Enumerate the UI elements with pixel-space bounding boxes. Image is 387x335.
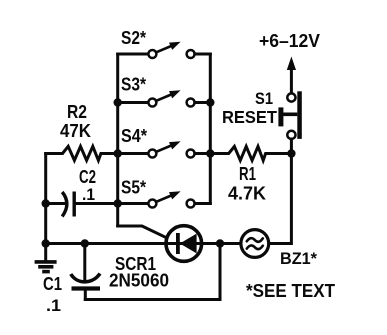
switch S3 [118,90,211,106]
switch S1 (reset pushbutton) [278,91,301,153]
svg-text:+6–12V: +6–12V [259,31,320,51]
SCR1 [166,226,240,262]
label R2 [67,102,87,122]
label 47K [60,121,91,141]
label C2 value .1 [82,185,95,204]
label 2N5060 [109,271,169,291]
svg-text:S1: S1 [255,89,273,108]
wire power bus down to buzzer [270,154,292,244]
power arrow +6-12V [287,57,296,94]
node S5/C2 left bus junction [114,199,122,207]
label C1 value .1 [46,296,61,315]
svg-text:*SEE TEXT: *SEE TEXT [246,280,336,301]
svg-text:S3*: S3* [121,75,146,95]
svg-text:4.7K: 4.7K [228,184,266,204]
label R1 [239,164,256,184]
node S4 left bus junction [114,149,122,157]
node C2 left junction [42,199,50,207]
node C1 top junction [81,239,89,247]
svg-text:C2: C2 [79,167,96,187]
switch S2 [118,42,211,58]
resistor R1 [210,146,291,160]
label S1 [255,89,273,108]
svg-text:R1: R1 [239,164,256,184]
label RESET [222,107,277,127]
wire SCR1 gate lead [118,226,166,237]
capacitor C1 [71,244,100,300]
svg-text:S2*: S2* [121,28,146,48]
label +6-12V [259,31,320,51]
label BZ1* [280,249,317,268]
svg-text:S4*: S4* [121,126,147,146]
label C2 [79,167,96,187]
svg-text:2N5060: 2N5060 [109,271,169,291]
label S4* [121,126,147,146]
wire ground row [46,242,166,245]
label S2* [121,28,146,48]
wire right switch bus [196,54,211,204]
resistor R2 [46,146,118,160]
switch S5 [118,191,211,207]
wire left branch vertical [46,154,62,244]
svg-text:RESET: RESET [222,107,277,127]
svg-text:C1: C1 [43,274,62,294]
node SCR/BZ1 junction [216,239,224,247]
node S4/R1 right bus junction [206,149,214,157]
node S1/R1 junction [287,149,295,157]
label C1 [43,274,62,294]
svg-text:.1: .1 [46,296,61,315]
wire left bus [118,54,148,226]
svg-text:.1: .1 [82,185,95,204]
wire bottom loop [85,244,220,300]
capacitor C2 [46,192,118,217]
label 4.7K [228,184,266,204]
buzzer BZ1 [241,230,269,258]
ground [35,244,57,272]
label S5* [121,178,146,198]
label *SEE TEXT [246,280,336,301]
switch S4 [118,141,211,157]
svg-text:47K: 47K [60,121,91,141]
node S3 left bus junction [114,98,122,106]
svg-text:BZ1*: BZ1* [280,249,317,268]
label S3* [121,75,146,95]
svg-text:S5*: S5* [121,178,146,198]
svg-text:R2: R2 [67,102,87,122]
label SCR1 [115,254,156,274]
node S3 right bus junction [206,98,214,106]
node ground junction [42,239,50,247]
